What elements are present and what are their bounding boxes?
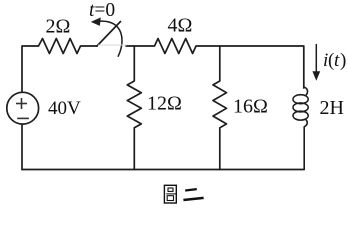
- svg-text:2H: 2H: [320, 97, 344, 119]
- svg-text:16Ω: 16Ω: [233, 95, 268, 117]
- svg-text:2Ω: 2Ω: [46, 15, 71, 37]
- svg-text:): ): [340, 50, 346, 71]
- svg-text:40V: 40V: [48, 98, 81, 119]
- svg-text:t=0: t=0: [89, 0, 115, 21]
- svg-text:4Ω: 4Ω: [168, 15, 193, 37]
- svg-text:12Ω: 12Ω: [147, 93, 182, 115]
